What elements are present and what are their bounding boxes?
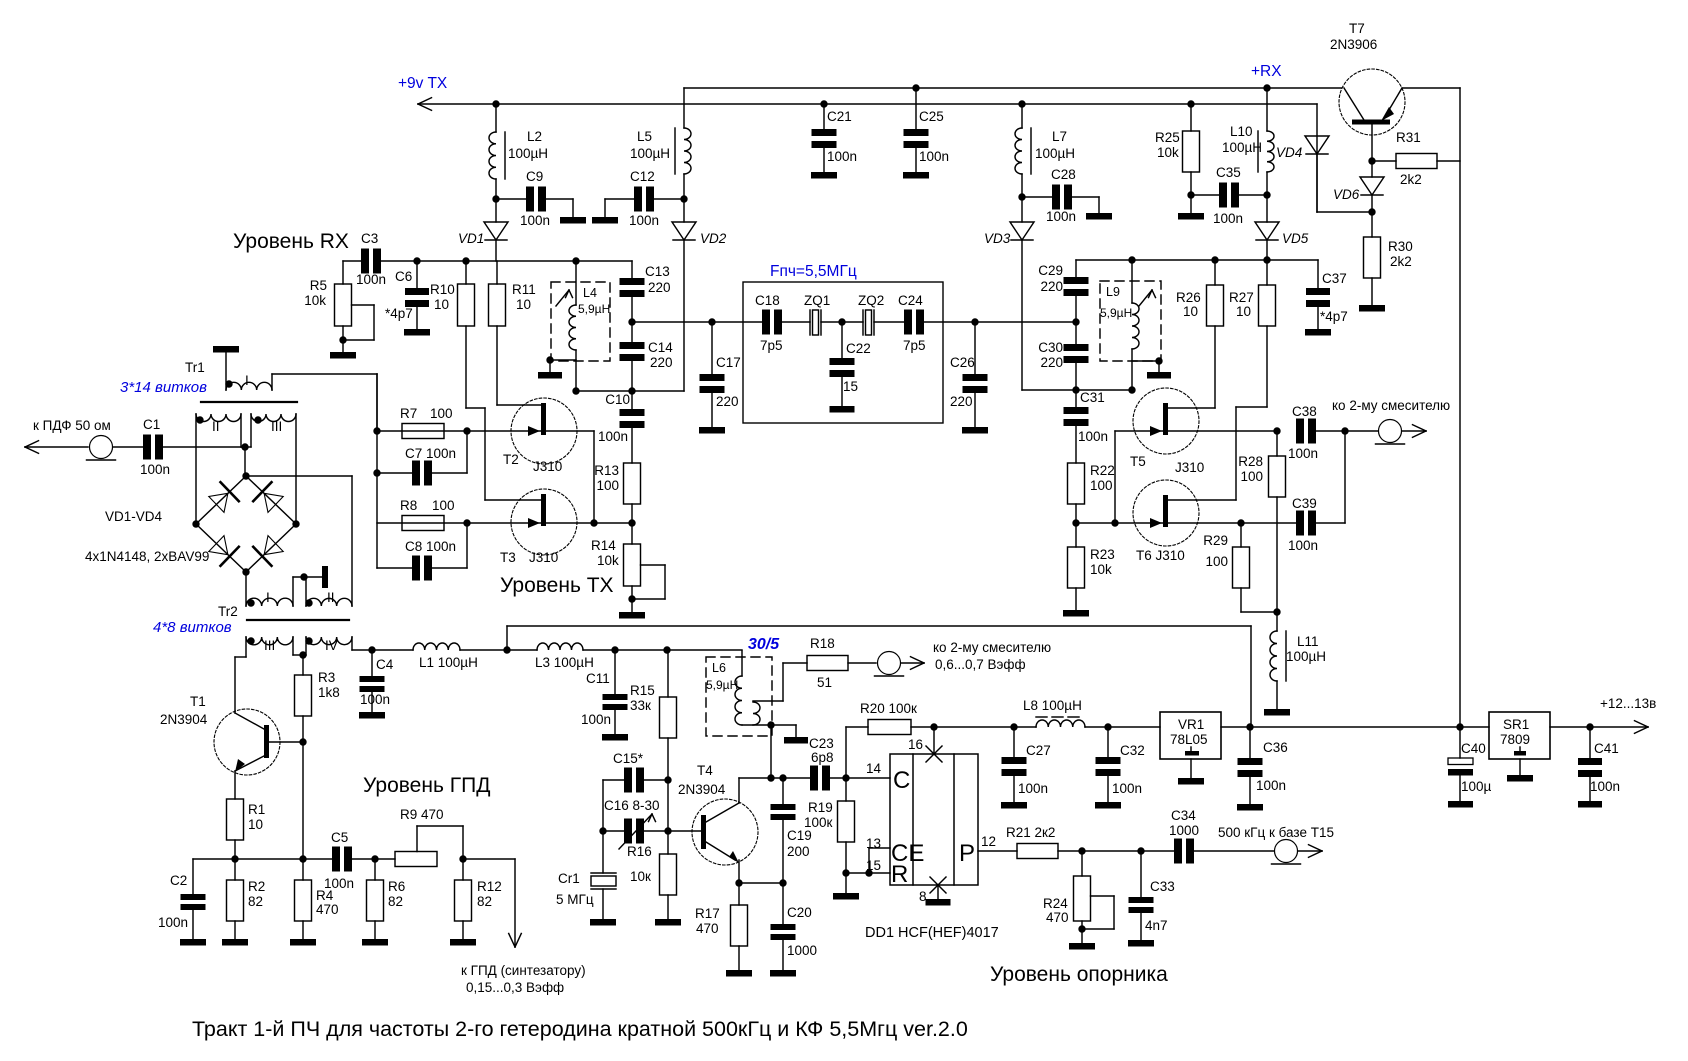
svg-text:100n: 100n <box>1112 781 1142 796</box>
svg-text:R28: R28 <box>1238 454 1263 469</box>
svg-text:R7: R7 <box>400 406 417 421</box>
svg-text:VD4: VD4 <box>1276 145 1302 160</box>
svg-text:100n: 100n <box>827 149 857 164</box>
svg-text:R3: R3 <box>318 670 335 685</box>
svg-text:T1: T1 <box>190 694 206 709</box>
svg-text:100n: 100n <box>1046 209 1076 224</box>
svg-text:R18: R18 <box>810 636 835 651</box>
svg-text:1000: 1000 <box>1169 823 1199 838</box>
svg-text:VD1: VD1 <box>458 231 484 246</box>
svg-text:51: 51 <box>817 675 832 690</box>
svg-text:C33: C33 <box>1150 879 1175 894</box>
svg-text:13: 13 <box>866 836 881 851</box>
svg-text:C9: C9 <box>526 169 543 184</box>
svg-text:10: 10 <box>1183 304 1198 319</box>
svg-text:2N3906: 2N3906 <box>1330 37 1377 52</box>
svg-text:7p5: 7p5 <box>903 338 926 353</box>
svg-text:100: 100 <box>432 498 455 513</box>
svg-text:100n: 100n <box>598 429 628 444</box>
svg-text:R14: R14 <box>591 538 616 553</box>
svg-text:10: 10 <box>434 297 449 312</box>
svg-text:VD1-VD4: VD1-VD4 <box>105 509 163 524</box>
svg-text:2N3904: 2N3904 <box>160 712 208 727</box>
svg-text:100n: 100n <box>1256 778 1286 793</box>
svg-text:C24: C24 <box>898 293 923 308</box>
svg-text:16: 16 <box>908 737 923 752</box>
svg-text:T3: T3 <box>500 550 516 565</box>
svg-text:Уровень RX: Уровень RX <box>233 230 349 253</box>
svg-text:R1: R1 <box>248 802 265 817</box>
svg-text:82: 82 <box>388 894 403 909</box>
svg-text:78L05: 78L05 <box>1170 732 1208 747</box>
svg-text:2N3904: 2N3904 <box>678 782 726 797</box>
svg-text:2k2: 2k2 <box>1400 172 1422 187</box>
svg-text:100µH: 100µH <box>508 146 548 161</box>
svg-text:C3: C3 <box>361 231 378 246</box>
svg-text:82: 82 <box>248 894 263 909</box>
svg-text:470: 470 <box>696 921 719 936</box>
svg-text:+12...13в: +12...13в <box>1600 696 1656 711</box>
svg-text:DD1 HCF(HEF)4017: DD1 HCF(HEF)4017 <box>865 925 999 941</box>
svg-text:8: 8 <box>919 889 927 904</box>
svg-text:C2: C2 <box>170 873 187 888</box>
svg-text:5,9µH: 5,9µH <box>1100 306 1132 320</box>
svg-text:C36: C36 <box>1263 740 1288 755</box>
svg-text:100n: 100n <box>1288 446 1318 461</box>
svg-text:100µH: 100µH <box>1222 140 1262 155</box>
svg-text:220: 220 <box>716 394 739 409</box>
svg-text:100n: 100n <box>158 915 188 930</box>
svg-text:C13: C13 <box>645 264 670 279</box>
svg-text:J310: J310 <box>1175 460 1204 475</box>
svg-text:100: 100 <box>1240 469 1263 484</box>
svg-text:82: 82 <box>477 894 492 909</box>
svg-text:C21: C21 <box>827 109 852 124</box>
svg-text:II: II <box>327 590 335 605</box>
svg-text:VD2: VD2 <box>700 231 727 246</box>
svg-text:C23: C23 <box>809 736 834 751</box>
svg-text:4x1N4148, 2xBAV99: 4x1N4148, 2xBAV99 <box>85 549 209 564</box>
svg-text:C10: C10 <box>605 392 630 407</box>
svg-text:C20: C20 <box>787 905 812 920</box>
svg-text:L9: L9 <box>1106 285 1120 299</box>
svg-text:SR1: SR1 <box>1503 717 1529 732</box>
svg-text:R9 470: R9 470 <box>400 807 444 822</box>
svg-text:L8 100µH: L8 100µH <box>1023 698 1082 713</box>
svg-text:к ПДФ 50 ом: к ПДФ 50 ом <box>33 418 111 433</box>
svg-text:VD3: VD3 <box>984 231 1011 246</box>
svg-text:500 кГц к базе Т15: 500 кГц к базе Т15 <box>1218 825 1334 840</box>
svg-text:R24: R24 <box>1043 896 1068 911</box>
svg-text:3*14 витков: 3*14 витков <box>120 379 207 396</box>
svg-text:200: 200 <box>787 844 810 859</box>
svg-text:C1: C1 <box>143 417 160 432</box>
svg-text:C18: C18 <box>755 293 780 308</box>
svg-text:C19: C19 <box>787 828 812 843</box>
svg-text:12: 12 <box>981 834 996 849</box>
svg-text:100n: 100n <box>1018 781 1048 796</box>
svg-text:R20 100к: R20 100к <box>860 701 917 716</box>
svg-text:+RX: +RX <box>1251 63 1282 80</box>
svg-text:100n: 100n <box>629 213 659 228</box>
svg-text:100: 100 <box>1090 478 1113 493</box>
svg-text:C34: C34 <box>1171 808 1196 823</box>
svg-text:C32: C32 <box>1120 743 1145 758</box>
svg-text:C37: C37 <box>1322 271 1347 286</box>
svg-text:100n: 100n <box>324 876 354 891</box>
svg-text:5,9µH: 5,9µH <box>578 302 610 316</box>
svg-text:R23: R23 <box>1090 547 1115 562</box>
svg-text:470: 470 <box>316 902 339 917</box>
svg-text:100µ: 100µ <box>1461 779 1492 794</box>
svg-text:100n: 100n <box>360 692 390 707</box>
svg-text:Tr2: Tr2 <box>218 604 238 619</box>
svg-text:100n: 100n <box>1213 211 1243 226</box>
svg-text:Fпч=5,5МГц: Fпч=5,5МГц <box>770 263 857 280</box>
svg-text:10: 10 <box>516 297 531 312</box>
svg-text:100n: 100n <box>356 272 386 287</box>
svg-text:C16 8-30: C16 8-30 <box>604 798 660 813</box>
svg-text:1k8: 1k8 <box>318 685 340 700</box>
svg-text:T7: T7 <box>1349 21 1365 36</box>
svg-text:5 МГц: 5 МГц <box>556 892 594 907</box>
svg-text:I: I <box>245 373 249 388</box>
svg-text:Тракт 1-й ПЧ для частоты 2-го: Тракт 1-й ПЧ для частоты 2-го гетеродина… <box>192 1017 968 1041</box>
svg-text:R10: R10 <box>430 282 455 297</box>
svg-text:VD6: VD6 <box>1333 187 1360 202</box>
svg-text:C17: C17 <box>716 355 741 370</box>
svg-text:100к: 100к <box>804 815 833 830</box>
svg-text:10: 10 <box>1236 304 1251 319</box>
svg-text:C28: C28 <box>1051 167 1076 182</box>
svg-text:14: 14 <box>866 761 882 776</box>
svg-text:ZQ2: ZQ2 <box>858 293 884 308</box>
svg-text:R5: R5 <box>310 278 327 293</box>
svg-text:L6: L6 <box>712 661 726 675</box>
svg-text:100n: 100n <box>1288 538 1318 553</box>
svg-text:7p5: 7p5 <box>760 338 783 353</box>
svg-text:7809: 7809 <box>1500 732 1530 747</box>
svg-text:R22: R22 <box>1090 463 1115 478</box>
svg-text:30/5: 30/5 <box>748 636 780 653</box>
svg-text:C14: C14 <box>648 340 673 355</box>
svg-text:Tr1: Tr1 <box>185 360 205 375</box>
svg-text:220: 220 <box>1040 355 1063 370</box>
svg-text:C5: C5 <box>331 830 348 845</box>
svg-text:P: P <box>959 840 975 867</box>
svg-text:C35: C35 <box>1216 165 1241 180</box>
svg-text:100n: 100n <box>581 712 611 727</box>
svg-text:L11: L11 <box>1297 634 1319 649</box>
svg-text:T5: T5 <box>1130 454 1146 469</box>
svg-text:10: 10 <box>248 817 263 832</box>
svg-text:II: II <box>212 419 220 434</box>
svg-text:C39: C39 <box>1292 496 1317 511</box>
svg-text:100: 100 <box>430 406 453 421</box>
svg-text:L3 100µH: L3 100µH <box>535 655 594 670</box>
svg-text:R19: R19 <box>808 800 833 815</box>
svg-text:100µH: 100µH <box>1286 649 1326 664</box>
svg-text:4n7: 4n7 <box>1145 918 1168 933</box>
svg-text:100n: 100n <box>1590 779 1620 794</box>
svg-text:R31: R31 <box>1396 130 1421 145</box>
svg-text:0,6...0,7 Вэфф: 0,6...0,7 Вэфф <box>935 657 1026 672</box>
svg-text:*4p7: *4p7 <box>385 306 413 321</box>
svg-text:C8 100n: C8 100n <box>405 539 456 554</box>
svg-text:Уровень опорника: Уровень опорника <box>990 963 1168 986</box>
svg-text:R13: R13 <box>594 463 619 478</box>
svg-text:C30: C30 <box>1038 340 1063 355</box>
svg-text:R25: R25 <box>1155 130 1180 145</box>
svg-text:R21 2к2: R21 2к2 <box>1006 825 1055 840</box>
svg-text:C25: C25 <box>919 109 944 124</box>
svg-text:100n: 100n <box>140 462 170 477</box>
svg-text:100n: 100n <box>520 213 550 228</box>
svg-text:C38: C38 <box>1292 404 1317 419</box>
svg-text:220: 220 <box>950 394 973 409</box>
svg-text:2k2: 2k2 <box>1390 254 1412 269</box>
svg-text:10к: 10к <box>630 869 651 884</box>
svg-text:R26: R26 <box>1176 290 1201 305</box>
svg-text:C27: C27 <box>1026 743 1051 758</box>
svg-text:C11: C11 <box>586 671 610 686</box>
svg-text:J310: J310 <box>533 459 562 474</box>
svg-text:IV: IV <box>325 638 338 653</box>
svg-text:ко 2-му смесителю: ко 2-му смесителю <box>1332 398 1450 413</box>
svg-text:C26: C26 <box>950 355 975 370</box>
svg-text:R12: R12 <box>477 879 502 894</box>
svg-text:L7: L7 <box>1052 129 1067 144</box>
svg-text:I: I <box>266 590 270 605</box>
svg-text:100n: 100n <box>1078 429 1108 444</box>
svg-text:L2: L2 <box>527 129 542 144</box>
svg-text:100µH: 100µH <box>1035 146 1075 161</box>
svg-text:T6 J310: T6 J310 <box>1136 548 1185 563</box>
svg-text:III: III <box>271 419 282 434</box>
svg-text:T2: T2 <box>503 452 519 467</box>
svg-text:VD5: VD5 <box>1282 231 1309 246</box>
svg-text:T4: T4 <box>697 763 713 778</box>
svg-text:5,9µH: 5,9µH <box>706 678 738 692</box>
svg-text:220: 220 <box>1040 279 1063 294</box>
svg-text:+9v TX: +9v TX <box>398 75 448 92</box>
svg-text:*4p7: *4p7 <box>1320 309 1348 324</box>
svg-text:R2: R2 <box>248 879 265 894</box>
svg-text:10k: 10k <box>304 293 326 308</box>
svg-text:220: 220 <box>648 280 671 295</box>
svg-text:15: 15 <box>843 379 858 394</box>
svg-text:R6: R6 <box>388 879 405 894</box>
svg-text:R27: R27 <box>1229 290 1254 305</box>
svg-text:L10: L10 <box>1230 124 1253 139</box>
svg-text:ZQ1: ZQ1 <box>804 293 830 308</box>
svg-text:220: 220 <box>650 355 673 370</box>
svg-text:0,15...0,3 Вэфф: 0,15...0,3 Вэфф <box>466 980 564 995</box>
svg-text:100n: 100n <box>919 149 949 164</box>
svg-text:Cr1: Cr1 <box>558 871 580 886</box>
svg-text:L4: L4 <box>583 286 597 300</box>
svg-text:C31: C31 <box>1080 390 1105 405</box>
svg-text:10k: 10k <box>1157 145 1179 160</box>
svg-text:100: 100 <box>596 478 619 493</box>
svg-text:VR1: VR1 <box>1178 717 1204 732</box>
svg-text:C29: C29 <box>1038 263 1063 278</box>
svg-text:R11: R11 <box>512 282 536 297</box>
svg-text:R29: R29 <box>1203 533 1228 548</box>
svg-text:C7 100n: C7 100n <box>405 446 456 461</box>
svg-text:C40: C40 <box>1461 741 1486 756</box>
svg-text:J310: J310 <box>529 550 558 565</box>
svg-text:R30: R30 <box>1388 239 1413 254</box>
svg-text:L5: L5 <box>637 129 652 144</box>
svg-text:10k: 10k <box>597 553 619 568</box>
svg-text:C: C <box>893 767 910 794</box>
svg-text:33к: 33к <box>630 698 651 713</box>
svg-text:C15*: C15* <box>613 751 644 766</box>
svg-text:R16: R16 <box>627 844 652 859</box>
svg-text:100µH: 100µH <box>630 146 670 161</box>
svg-text:Уровень TX: Уровень TX <box>500 574 614 597</box>
svg-text:100: 100 <box>1205 554 1228 569</box>
svg-text:C12: C12 <box>630 169 655 184</box>
svg-text:C4: C4 <box>376 657 394 672</box>
svg-text:Уровень ГПД: Уровень ГПД <box>363 774 490 797</box>
svg-text:к ГПД (синтезатору): к ГПД (синтезатору) <box>461 963 586 978</box>
svg-text:R8: R8 <box>400 498 417 513</box>
svg-text:15: 15 <box>866 858 881 873</box>
svg-text:L1 100µH: L1 100µH <box>419 655 478 670</box>
svg-text:1000: 1000 <box>787 943 817 958</box>
svg-text:10k: 10k <box>1090 562 1112 577</box>
svg-text:C6: C6 <box>395 269 412 284</box>
svg-text:C22: C22 <box>846 341 871 356</box>
svg-text:ко 2-му смесителю: ко 2-му смесителю <box>933 640 1051 655</box>
svg-text:C41: C41 <box>1594 741 1619 756</box>
svg-text:III: III <box>264 638 275 653</box>
svg-text:R17: R17 <box>695 906 720 921</box>
svg-text:6p8: 6p8 <box>811 750 834 765</box>
svg-text:R15: R15 <box>630 683 655 698</box>
svg-text:R: R <box>891 861 908 888</box>
svg-text:470: 470 <box>1046 910 1069 925</box>
svg-text:4*8 витков: 4*8 витков <box>153 619 232 636</box>
